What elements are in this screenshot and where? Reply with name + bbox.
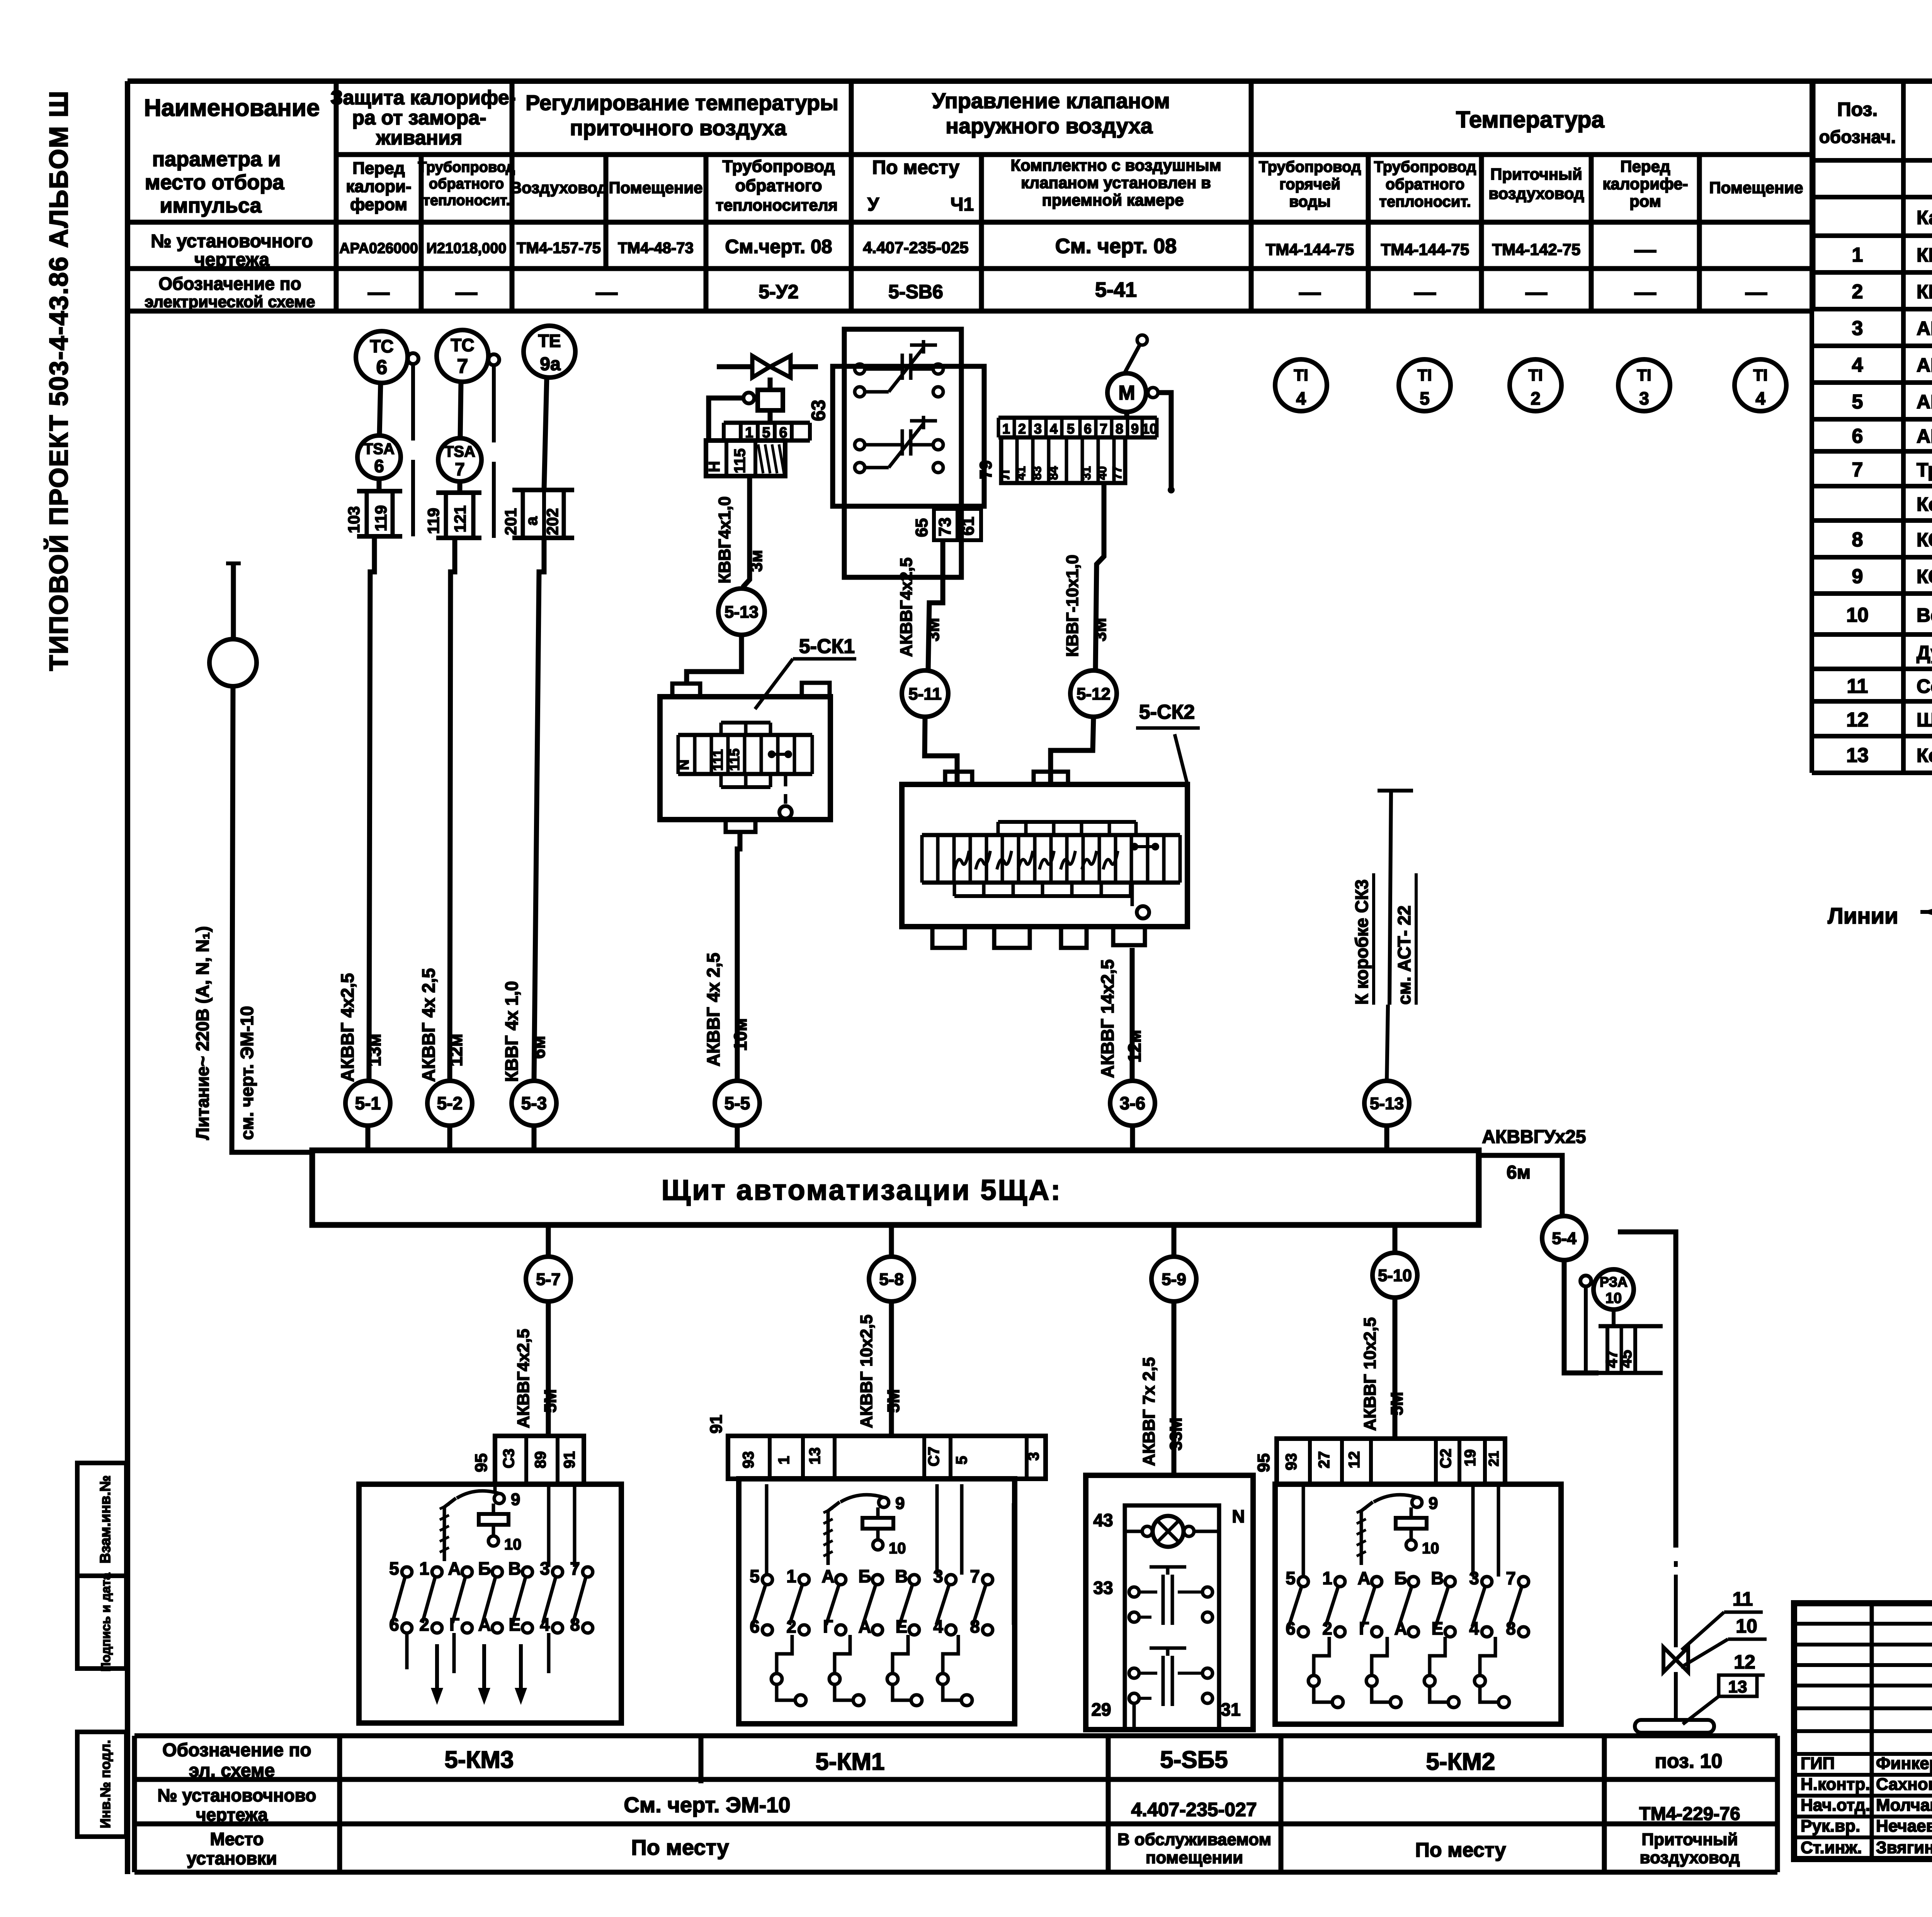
svg-text:КСК-16: КСК-16 [1917,566,1932,587]
svg-text:5-СК1: 5-СК1 [799,635,855,658]
svg-text:Вентиль запорный муфтовый 15к: Вентиль запорный муфтовый 15кч 18П2 [1917,604,1932,626]
wire panel to node 5-10 [1393,1225,1398,1253]
svg-text:9: 9 [1429,1494,1438,1513]
svg-text:К коробке СК3: К коробке СК3 [1352,879,1372,1005]
svg-text:61: 61 [959,517,978,536]
dashed wire from TC7 pin [492,365,496,538]
svg-text:Перед: Перед [1620,157,1670,175]
svg-text:АКВВГ 10х 2,5: АКВВГ 10х 2,5 [1917,391,1932,413]
relay 5-KM2 contacts [1286,1568,1529,1638]
sensor TSA6 [357,435,401,479]
node 5-10 [1372,1253,1417,1298]
svg-text:АКВВГ 7х 2,5: АКВВГ 7х 2,5 [1917,354,1932,376]
svg-text:Обозначение по: Обозначение по [162,1740,311,1761]
svg-text:3: 3 [1025,1452,1042,1461]
label 5-SK2 with leader [1136,701,1200,784]
svg-text:33: 33 [1093,1578,1113,1598]
svg-text:3М: 3М [924,618,943,641]
svg-text:КВВГ 10х1,0: КВВГ 10х1,0 [1917,281,1932,303]
node 5-2 [427,1081,472,1126]
cable label AKVVG 14x2.5 12m [1097,959,1145,1078]
svg-text:Инв.№ подл.: Инв.№ подл. [97,1740,113,1829]
svg-text:№ установочного: № установочного [151,231,313,252]
wire contactor to node 5-11 [928,540,943,670]
terminal cells 47 45 [1599,1326,1663,1373]
pin of TC6 [408,353,418,364]
svg-text:84: 84 [1046,466,1060,480]
svg-text:3М: 3М [1091,618,1110,641]
wire TSA6 box to node 5-1 [369,536,374,1081]
wire TE9a down [544,378,547,490]
svg-text:5-КМ2: 5-КМ2 [1426,1749,1495,1775]
main title block [1794,1603,1932,1860]
svg-text:45: 45 [1617,1350,1635,1368]
svg-text:6: 6 [1852,425,1863,447]
svg-text:201: 201 [502,508,520,535]
svg-text:С3: С3 [500,1449,517,1468]
svg-text:5-12: 5-12 [1077,684,1111,703]
junction box 5-SK2 [902,772,1187,948]
svg-text:Помещение: Помещение [609,179,702,197]
svg-text:АКВВГ 7х 2,5: АКВВГ 7х 2,5 [1139,1357,1158,1466]
svg-text:Место: Место [210,1829,264,1849]
svg-text:40: 40 [1095,466,1109,480]
svg-text:В: В [895,1566,908,1586]
power feed wire to panel [232,686,312,1152]
wire 5-13 to box 5-SK1 [687,635,742,684]
svg-text:А: А [448,1558,461,1579]
svg-text:3: 3 [1852,317,1863,340]
svg-text:воздуховод: воздуховод [1639,1848,1740,1867]
svg-text:Подпись и дата: Подпись и дата [99,1573,113,1672]
svg-text:КСК-8: КСК-8 [1917,529,1932,551]
cable label АКВВГ4х2,5 5М [514,1329,560,1428]
svg-text:Обозначение по: Обозначение по [158,274,301,294]
svg-text:По месту: По месту [872,156,959,178]
svg-text:12: 12 [1846,709,1869,731]
svg-text:4: 4 [1296,388,1306,408]
svg-text:Приточный: Приточный [1490,165,1582,183]
svg-text:АКВВГ 14х2,5: АКВВГ 14х2,5 [1097,959,1117,1078]
power feed label [192,926,257,1140]
svg-text:обратного: обратного [429,176,504,192]
svg-text:В обслуживаемом: В обслуживаемом [1117,1830,1271,1849]
svg-text:13м: 13м [364,1034,384,1067]
relay block 5-KM3 box [359,1484,621,1723]
thermometer TI-4 [1735,359,1786,411]
svg-text:Взам.инв.№: Взам.инв.№ [97,1475,114,1563]
svg-text:9: 9 [895,1494,905,1513]
svg-text:29: 29 [1091,1699,1111,1720]
terminal strip under coil [706,410,810,476]
relay block 5-KM1 header [707,1415,1046,1479]
wire panel to node 5-9 [1172,1225,1177,1257]
svg-text:—: — [1634,280,1656,304]
svg-text:воздуховод: воздуховод [1488,184,1584,202]
wire TC6 to TSA6 [379,383,381,435]
svg-text:Линии: Линии [1828,903,1898,929]
svg-text:Перед: Перед [352,159,405,178]
svg-text:65: 65 [912,518,931,537]
svg-text:А: А [1357,1568,1370,1588]
svg-text:теплоносит.: теплоносит. [423,192,510,209]
svg-text:ТI: ТI [1753,366,1767,384]
sensor TC7 [437,330,488,382]
svg-text:ТС: ТС [451,335,474,355]
svg-text:Б: Б [1394,1568,1407,1588]
wires inside 5-KM3 [407,1484,575,1673]
wire 5-9 down [1172,1301,1177,1474]
node 5-12 [1070,670,1117,717]
svg-text:калори-: калори- [346,177,411,196]
label K korobke SK3 [1352,873,1416,1005]
svg-text:9: 9 [1852,565,1863,588]
svg-text:Штуцер Шч Труб 1/2": Штуцер Шч Труб 1/2" [1917,709,1932,731]
svg-text:ТС: ТС [370,336,393,356]
svg-text:41: 41 [1014,466,1028,480]
svg-text:См. черт. 08: См. черт. 08 [1055,235,1177,258]
svg-text:Помещение: Помещение [1709,179,1803,197]
svg-text:ра от замора-: ра от замора- [352,107,486,129]
cable label AKVVGU x25 6m [1482,1127,1586,1183]
svg-text:2: 2 [1531,388,1541,408]
svg-text:4: 4 [1755,388,1765,408]
svg-text:—: — [368,280,389,304]
svg-text:АКВВГ 4х2,5: АКВВГ 4х2,5 [337,973,357,1082]
svg-text:АКВВГ 4х 2,5: АКВВГ 4х 2,5 [418,968,439,1082]
svg-text:10: 10 [1736,1615,1757,1637]
svg-text:Приточный: Приточный [1641,1830,1738,1849]
svg-text:5: 5 [1852,391,1863,413]
svg-text:Комплектно с воздушным: Комплектно с воздушным [1010,156,1221,174]
svg-text:ТИПОВОЙ ПРОЕКТ 503-4-43.86: ТИПОВОЙ ПРОЕКТ 503-4-43.86 АЛЬБОМ Ш [44,90,73,671]
svg-text:ТSА: ТSА [444,443,475,460]
svg-text:По месту: По месту [1415,1839,1506,1861]
svg-text:клапаном установлен в: клапаном установлен в [1021,173,1211,192]
relay 5-KM2 coil branch [1357,1494,1439,1565]
wire 5-SK2 to node 5-6 [1130,948,1135,1081]
5-SB5 lamp [1093,1506,1245,1547]
svg-text:См.черт. 08: См.черт. 08 [725,236,832,257]
relay 5-KM3 contacts [389,1558,593,1635]
svg-text:Б: Б [858,1566,871,1586]
svg-text:3-6: 3-6 [1120,1093,1145,1113]
label 5-SK1 with leader [755,635,856,709]
svg-text:Трубопровод: Трубопровод [418,159,515,175]
svg-text:10: 10 [1422,1540,1439,1557]
svg-text:5-13: 5-13 [724,602,759,621]
relay 5-KM1 bottom wiring [767,1484,1014,1706]
wire 5-5 to panel [735,1126,740,1150]
svg-text:5-СК2: 5-СК2 [1139,701,1195,723]
pipe under valve [1635,1720,1714,1733]
svg-text:место отбора: место отбора [145,171,284,194]
bottom designation table texts [157,1740,1740,1868]
svg-text:5-10: 5-10 [1378,1266,1412,1285]
left margin title text [44,90,73,671]
svg-text:Н: Н [706,461,723,472]
svg-text:6: 6 [374,456,384,476]
node 5-7 [526,1257,571,1301]
svg-text:АКВВГУх25: АКВВГУх25 [1482,1127,1586,1147]
svg-text:21: 21 [1486,1451,1502,1466]
svg-text:КВВГ-10х1,0: КВВГ-10х1,0 [1063,555,1082,657]
wire 5-1 to panel [366,1126,371,1150]
svg-text:202: 202 [543,508,561,535]
svg-text:№ установочново: № установочново [157,1785,316,1805]
wire 5-10 down [1393,1298,1398,1439]
svg-text:а: а [522,516,541,526]
svg-text:Молчанов: Молчанов [1876,1796,1932,1815]
svg-text:Поз.: Поз. [1837,99,1878,120]
terminal box of TSA6 [345,479,402,536]
svg-text:5-13: 5-13 [1370,1094,1404,1113]
cable label АКВВГ 10х2,5 5М [1361,1317,1406,1431]
valve poz.10 symbol [1663,1647,1688,1720]
svg-text:Температура: Температура [1456,107,1604,133]
svg-text:5-8: 5-8 [879,1270,904,1289]
wire 5-2 to panel [447,1126,452,1150]
svg-text:—: — [1745,280,1767,304]
svg-text:Сахновская: Сахновская [1876,1775,1932,1794]
svg-text:7: 7 [970,1566,980,1586]
svg-text:ТЕ: ТЕ [538,331,561,351]
wire 5-6 to panel [1130,1126,1135,1150]
svg-text:Звягинцева: Звягинцева [1876,1838,1932,1857]
node 5-5 [715,1081,760,1126]
dashed wire from TC6 pin [411,364,415,536]
svg-text:5М: 5М [884,1389,903,1413]
svg-text:11: 11 [1733,1588,1753,1610]
svg-text:95: 95 [1254,1453,1273,1472]
svg-text:Колпачок- заглушка К3-Труб1/2": Колпачок- заглушка К3-Труб1/2" ТУ36.1144… [1917,745,1932,766]
svg-text:31: 31 [1221,1699,1240,1720]
svg-text:Ду 15мм Ру 16 кгс/см² ГОСТ 652: Ду 15мм Ру 16 кгс/см² ГОСТ 6527- 68* [1917,642,1932,663]
contactor label 63 [808,400,829,421]
power feed circle [209,639,257,686]
svg-text:9а: 9а [540,354,561,374]
contactor block outline [833,329,984,577]
cable label KVVG-10x1.0 3m [1063,555,1110,657]
svg-text:11: 11 [1847,675,1868,697]
svg-text:1: 1 [1002,421,1010,437]
svg-text:установки: установки [187,1848,277,1868]
svg-text:3: 3 [1639,388,1649,408]
svg-text:83: 83 [1030,466,1044,480]
parts list rows [1846,207,1932,767]
junction box 5-SK1 [660,683,830,832]
wire panel to node 5-8 [889,1225,894,1257]
svg-text:Труба 14х2 ГОСТ 8734-75*: Труба 14х2 ГОСТ 8734-75* [1917,459,1932,481]
svg-text:см. черт. ЭМ-10: см. черт. ЭМ-10 [237,1006,257,1140]
wire 5-12 to box 5-SK2 [1051,717,1094,784]
contactor bottom cells 65 73 61 [912,509,981,540]
relay block 5-KM1 box [739,1479,1015,1724]
svg-text:7: 7 [455,459,465,479]
relay 5-KM3 coil branch [440,1490,522,1561]
sensor TSA7 [438,438,481,481]
svg-text:10м: 10м [730,1018,750,1051]
svg-text:ТМ4-144-75: ТМ4-144-75 [1266,240,1354,259]
svg-text:Регулирование температуры: Регулирование температуры [526,90,838,115]
svg-text:ГИП: ГИП [1801,1754,1835,1773]
svg-text:ТI: ТI [1294,366,1308,384]
relay 5-KM1 contacts [750,1566,993,1636]
svg-text:Трубопровод: Трубопровод [1374,158,1476,175]
terminal box of TSA7 [424,481,481,538]
svg-text:АКВВГ 4х2,5: АКВВГ 4х2,5 [1917,318,1932,339]
svg-text:РЗА: РЗА [1600,1274,1628,1290]
node 5-1 [345,1081,390,1126]
svg-text:119: 119 [372,505,390,531]
wire 5-7 down [546,1301,551,1436]
svg-text:10: 10 [1846,604,1869,626]
svg-text:калорифе-: калорифе- [1602,175,1688,193]
svg-text:параметра и: параметра и [152,148,281,171]
wire coil strip to node 5-13 [743,476,750,587]
svg-text:10: 10 [1142,421,1157,437]
svg-text:—: — [1414,280,1436,304]
svg-text:7: 7 [1852,459,1863,481]
svg-text:5: 5 [953,1456,970,1465]
svg-text:5-SБ5: 5-SБ5 [1160,1747,1228,1773]
svg-text:1: 1 [776,1456,793,1465]
relay block 5-KM3 header [472,1436,584,1484]
svg-text:5-У2: 5-У2 [759,281,798,303]
svg-text:И21018,000: И21018,000 [427,240,507,257]
cable label AKVVG4x2.5 3m upper [897,558,943,657]
note Linii demontirovat [1828,900,1932,929]
power feed top tick [226,563,241,639]
svg-text:119: 119 [424,508,442,534]
svg-text:АКВВГ4х2,5: АКВВГ4х2,5 [514,1329,533,1428]
node 5-6 [1110,1081,1155,1126]
cable label KVVG 4x1.0 6m [502,981,549,1082]
parts list header [1819,99,1932,147]
svg-text:АРА026000: АРА026000 [339,240,418,257]
svg-text:Ст.инж.: Ст.инж. [1801,1838,1862,1857]
svg-text:12м: 12м [446,1034,466,1067]
node 5-11 [902,670,948,717]
svg-text:Н.контр.: Н.контр. [1801,1775,1870,1794]
svg-text:5: 5 [1420,388,1430,408]
svg-text:Защита калорифе-: Защита калорифе- [330,87,516,109]
svg-text:4: 4 [1852,354,1863,376]
svg-text:10: 10 [889,1540,906,1557]
svg-text:5-41: 5-41 [1095,278,1137,301]
svg-text:5-1: 5-1 [355,1093,381,1113]
svg-text:В: В [1431,1568,1444,1588]
cable label АКВВГ 10х2,5 5М [857,1315,903,1428]
wire 5-3 to panel [532,1126,537,1150]
terminal box of TE9a [502,490,574,538]
svg-text:4.407-235-025: 4.407-235-025 [863,238,968,257]
parts list table grid [1812,81,1932,773]
parameter table header texts [144,87,1803,311]
motor terminal strip [976,412,1157,483]
wire TSA7 box to node 5-2 [450,538,455,1081]
svg-text:Соединитель НСВ 14х 1/2" ТУ: Соединитель НСВ 14х 1/2" ТУ36. 1104-75 [1917,675,1932,697]
svg-text:13: 13 [1728,1677,1747,1696]
svg-text:электрической схеме: электрической схеме [145,293,315,311]
svg-text:ТSА: ТSА [364,441,395,458]
svg-text:—: — [1299,280,1321,304]
svg-text:—: — [456,280,477,304]
svg-text:9: 9 [1131,421,1139,437]
wire 5-11 to box 5-SK2 [925,717,957,784]
wire 5-SB5 bottom [1133,1703,1136,1730]
wire to valve poz.10 [1618,1232,1676,1647]
svg-text:По месту: По месту [631,1835,729,1859]
cable label АКВВГ 7х 2,5 33М [1139,1357,1185,1466]
svg-text:6м: 6м [529,1036,549,1059]
svg-text:63: 63 [808,400,829,421]
svg-text:19: 19 [1462,1449,1479,1467]
svg-text:КВВГ4х1,0: КВВГ4х1,0 [715,497,734,583]
svg-text:Трубопровод: Трубопровод [722,157,835,176]
svg-text:73: 73 [935,517,954,536]
wire 5-8 down [889,1301,894,1436]
svg-text:121: 121 [451,505,469,532]
svg-text:5М: 5М [541,1389,560,1413]
svg-text:поз. 10: поз. 10 [1655,1750,1722,1772]
svg-text:эл. схеме: эл. схеме [189,1761,275,1781]
svg-text:Коробка соединительная ТУ36.: Коробка соединительная ТУ36. 1753-75 [1917,493,1932,515]
svg-text:6: 6 [376,356,388,379]
svg-text:фером: фером [350,195,407,214]
svg-text:Трубопровод: Трубопровод [1259,158,1361,175]
svg-text:1: 1 [1852,244,1863,266]
svg-text:ТI: ТI [1417,366,1432,384]
valve symbol with actuator [717,356,818,390]
svg-text:5М: 5М [1388,1392,1406,1415]
wire 5-SK1 to node 5-5 [737,832,740,1081]
svg-text:4: 4 [1050,421,1058,437]
svg-text:10: 10 [1605,1290,1622,1306]
wire to box SK3 [1378,791,1413,1081]
switch block 5-SB5 box [1086,1475,1253,1730]
svg-text:обратного: обратного [735,176,822,195]
svg-text:12: 12 [1346,1451,1363,1469]
svg-text:ТМ4-142-75: ТМ4-142-75 [1492,240,1581,259]
svg-text:5-7: 5-7 [536,1270,561,1289]
thermometer TI-4 [1275,359,1327,411]
svg-text:обратного: обратного [1386,176,1465,193]
svg-text:N: N [676,760,692,770]
cable label AKVVG 4x2.5 12m [418,968,466,1082]
svg-text:103: 103 [345,506,363,533]
svg-text:В: В [508,1558,521,1579]
svg-text:горячей: горячей [1279,176,1340,193]
sidebar box Взам.инв.№ [77,1463,126,1576]
svg-text:115: 115 [731,448,748,473]
svg-text:—: — [1526,280,1547,304]
svg-text:живания: живания [376,127,463,149]
sensor TE9a [524,326,575,378]
node 5-3 [512,1081,556,1126]
svg-text:1: 1 [1322,1568,1332,1588]
svg-text:С2: С2 [1437,1449,1454,1468]
svg-text:приточного воздуха: приточного воздуха [570,116,787,140]
svg-text:чертежа: чертежа [194,250,269,270]
svg-text:115: 115 [726,748,742,771]
svg-text:импульса: импульса [160,194,262,217]
svg-text:8: 8 [1116,421,1123,437]
wire panel to 5-4 [1479,1155,1562,1216]
svg-text:Нечаева: Нечаева [1876,1817,1932,1835]
sensor TC6 [356,331,408,383]
svg-text:4.407-235-027: 4.407-235-027 [1131,1799,1257,1820]
